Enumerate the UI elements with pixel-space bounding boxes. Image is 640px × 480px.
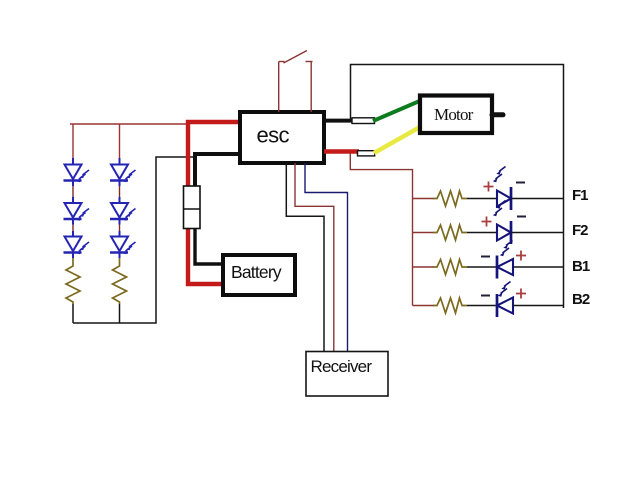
- LED D2: [64, 203, 90, 221]
- svg-text:F2: F2: [572, 222, 588, 239]
- svg-text:Battery: Battery: [231, 262, 282, 282]
- wire: R6 to D10: [467, 305, 497, 307]
- wire: thick red battery positive: [188, 122, 240, 284]
- wire: D9 to return: [513, 266, 564, 268]
- wire: R1 to ground bus: [72, 304, 74, 323]
- LED D10: [497, 294, 513, 317]
- wire: bottom return bus: [73, 157, 195, 323]
- resistor R4: [433, 225, 467, 240]
- wire: D3 cathode stub: [72, 253, 74, 259]
- resistor R3: [433, 191, 467, 206]
- wire: D4-D5 link: [119, 181, 121, 204]
- LED D9 light arrows: [500, 241, 513, 257]
- wire: drop to LED string 1: [72, 124, 74, 159]
- LED D8 light arrows: [493, 201, 506, 217]
- wire: D10 to return: [513, 305, 564, 307]
- LED D4: [110, 165, 136, 183]
- switch S1: [279, 51, 313, 113]
- wire: yellow motor wire: [374, 127, 420, 153]
- wire: D7 to return: [511, 198, 564, 200]
- wire: black return loop: [351, 65, 564, 309]
- resistor R5: [433, 260, 467, 275]
- polarity marks B1: [481, 251, 526, 261]
- svg-text:Motor: Motor: [434, 105, 474, 124]
- svg-text:Receiver: Receiver: [311, 357, 373, 376]
- svg-text:B2: B2: [572, 291, 590, 308]
- wire: feed stub B2: [413, 305, 435, 307]
- resistor R2: [113, 258, 127, 304]
- wire: string2 anode stub: [119, 158, 121, 165]
- motor shaft: [492, 112, 503, 117]
- LED D10 light arrows: [498, 282, 511, 297]
- wire: red supply bus top-left: [70, 123, 188, 125]
- wire: red feed to light bar: [350, 153, 412, 306]
- svg-text:esc: esc: [257, 123, 290, 148]
- wire: feed stub F1: [413, 198, 435, 200]
- wire: string1 anode stub: [72, 158, 74, 165]
- LED D5: [110, 203, 136, 221]
- wire: black battery negative lead: [195, 220, 223, 264]
- connector J2: [352, 118, 375, 124]
- svg-text:F1: F1: [572, 187, 588, 204]
- motor M1: [420, 96, 492, 134]
- wire: R5 to D9: [467, 266, 497, 268]
- wire: thick black esc negative: [195, 154, 240, 196]
- wire: drop to LED string 2: [119, 124, 121, 159]
- wire: D2-D3 link: [72, 219, 74, 237]
- LED D8: [497, 221, 511, 244]
- wire: D5-D6 link: [119, 219, 121, 237]
- LED D6: [110, 237, 136, 255]
- LED D1: [64, 165, 90, 183]
- wire: esc signal blue to receiver: [305, 163, 348, 352]
- svg-text:B1: B1: [572, 258, 590, 275]
- wire: esc signal red to receiver: [295, 163, 334, 352]
- wire: D6 cathode stub: [119, 253, 121, 259]
- wire: feed stub B1: [413, 266, 435, 268]
- LED D3: [64, 237, 90, 255]
- wire: thick black motor lead: [324, 119, 354, 123]
- resistor R1: [66, 258, 80, 304]
- wire: D1-D2 link: [72, 181, 74, 204]
- LED D9: [497, 256, 513, 279]
- op-amp esc box U1: [240, 112, 324, 163]
- wire: D8 to return: [511, 232, 564, 234]
- LED D7: [497, 187, 511, 210]
- connector J3: [358, 151, 375, 156]
- wire: R3 to D7: [467, 198, 497, 200]
- wire: feed stub F2: [413, 232, 435, 234]
- wire: R2 to ground bus: [119, 304, 121, 323]
- wire: R4 to D8: [467, 232, 497, 234]
- wire: esc signal black to receiver: [286, 163, 324, 352]
- wire: thick red motor lead: [324, 149, 359, 153]
- polarity marks B2: [481, 289, 526, 299]
- battery BT1: [223, 255, 295, 295]
- resistor R6: [433, 298, 467, 313]
- polarity marks F1: [484, 182, 526, 192]
- wire: green motor wire: [373, 101, 420, 121]
- connector J1 (battery plug): [184, 186, 201, 229]
- polarity marks F2: [482, 217, 527, 227]
- receiver U2: [306, 352, 388, 397]
- LED D7 light arrows: [493, 167, 506, 183]
